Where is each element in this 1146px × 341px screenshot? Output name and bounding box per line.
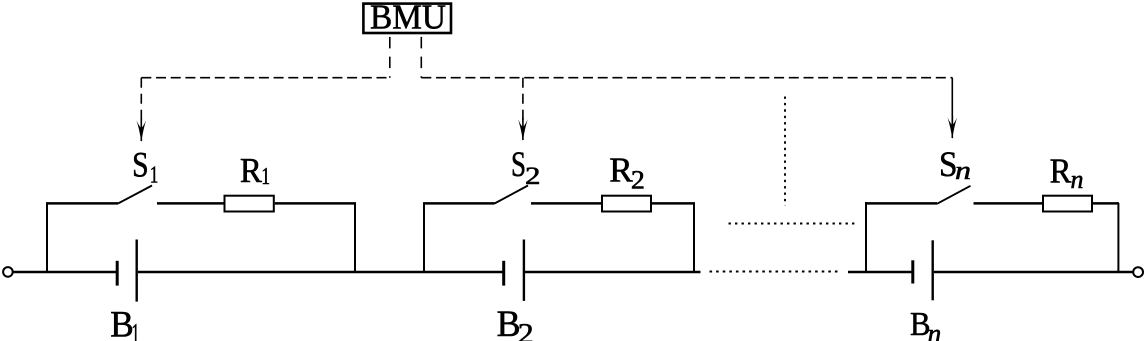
wire: control drop to S1 (dashed) (140, 78, 142, 124)
svg-text:2: 2 (525, 163, 541, 190)
wire: BMU left control stub (dashed) (389, 34, 391, 77)
battery B2 short plate (502, 261, 505, 286)
label R1 (240, 151, 270, 190)
svg-text:n: n (1071, 165, 1084, 194)
arrow to S1 (136, 120, 146, 142)
wire: celln left riser (865, 202, 867, 273)
wire: celln bypass left segment (865, 202, 937, 205)
battery Bn long plate (932, 240, 934, 300)
wire: Rn to celln right riser (1092, 202, 1119, 205)
switch Sn blade (937, 186, 971, 204)
wire: main bus to Bn (848, 271, 912, 274)
svg-text:S: S (511, 144, 526, 184)
wire: main bus Bn to right terminal (934, 271, 1133, 274)
svg-text:2: 2 (631, 165, 645, 194)
arrow to Sn (947, 117, 957, 139)
switch S1 blade (118, 186, 152, 204)
label B1 (110, 305, 139, 341)
battery B1 long plate (135, 240, 137, 302)
label S2 (511, 144, 541, 190)
label Rn (1050, 151, 1084, 194)
wire: main bus B2 rightward (525, 271, 701, 274)
wire: cell2 switch to R2 (531, 202, 602, 205)
wire: control drop to S2 (dashed) (522, 78, 524, 123)
label Sn (939, 144, 971, 185)
wire: R1 to cell1 right riser (275, 202, 356, 205)
controller BMU box (363, 4, 451, 33)
arrow to S2 (518, 119, 528, 141)
wire: cell2 bypass left segment (423, 202, 495, 205)
wire: BMU right control stub (dashed) (420, 34, 422, 77)
wire: cell1 bypass left segment (46, 202, 118, 205)
label Bn (910, 306, 941, 341)
wire: main bus dotted continuation (710, 271, 842, 273)
resistor R1 (225, 196, 274, 212)
wire: R2 to cell2 right riser (651, 202, 695, 205)
battery B2 long plate (523, 240, 525, 301)
wire: celln right riser (1117, 203, 1119, 273)
wire: cell2 right riser (693, 203, 695, 274)
resistor Rn (1043, 196, 1092, 212)
wire: celln switch to Rn (974, 202, 1044, 205)
svg-text:1: 1 (150, 163, 159, 189)
svg-text:n: n (955, 156, 971, 185)
svg-text:1: 1 (261, 164, 270, 190)
wire: left control bus (dashed) (141, 77, 389, 79)
battery Bn short plate (911, 260, 914, 283)
label S1 (132, 145, 158, 189)
label R2 (609, 151, 645, 195)
wire: main bus B1 to B2 (138, 271, 503, 274)
node: left terminal (3, 267, 13, 277)
wire: cell1 right riser (354, 203, 356, 274)
svg-text:n: n (928, 318, 942, 341)
svg-text:BMU: BMU (370, 0, 446, 37)
battery B1 short plate (116, 261, 119, 286)
svg-text:1: 1 (131, 316, 139, 341)
svg-text:R: R (240, 151, 263, 190)
wire: cell1 switch to R1 (157, 202, 224, 205)
svg-text:R: R (1050, 151, 1072, 190)
wire: right control bus (dashed) (421, 77, 952, 79)
wire: upper dotted continuation (729, 223, 857, 225)
resistor R2 (602, 196, 651, 212)
node: right terminal (1133, 267, 1143, 277)
wire: main bus left terminal to B1 (13, 271, 116, 274)
wire: control drop to Sn (solid) (951, 78, 953, 131)
svg-text:2: 2 (518, 319, 534, 341)
wire: cell1 left riser (46, 203, 48, 274)
svg-text:R: R (609, 151, 633, 190)
wire: cell2 left riser (423, 203, 425, 274)
wire: vertical dotted continuation (784, 97, 786, 206)
svg-text:B: B (110, 305, 134, 341)
label B2 (497, 304, 534, 341)
svg-text:S: S (132, 145, 149, 185)
switch S2 blade (495, 186, 529, 204)
